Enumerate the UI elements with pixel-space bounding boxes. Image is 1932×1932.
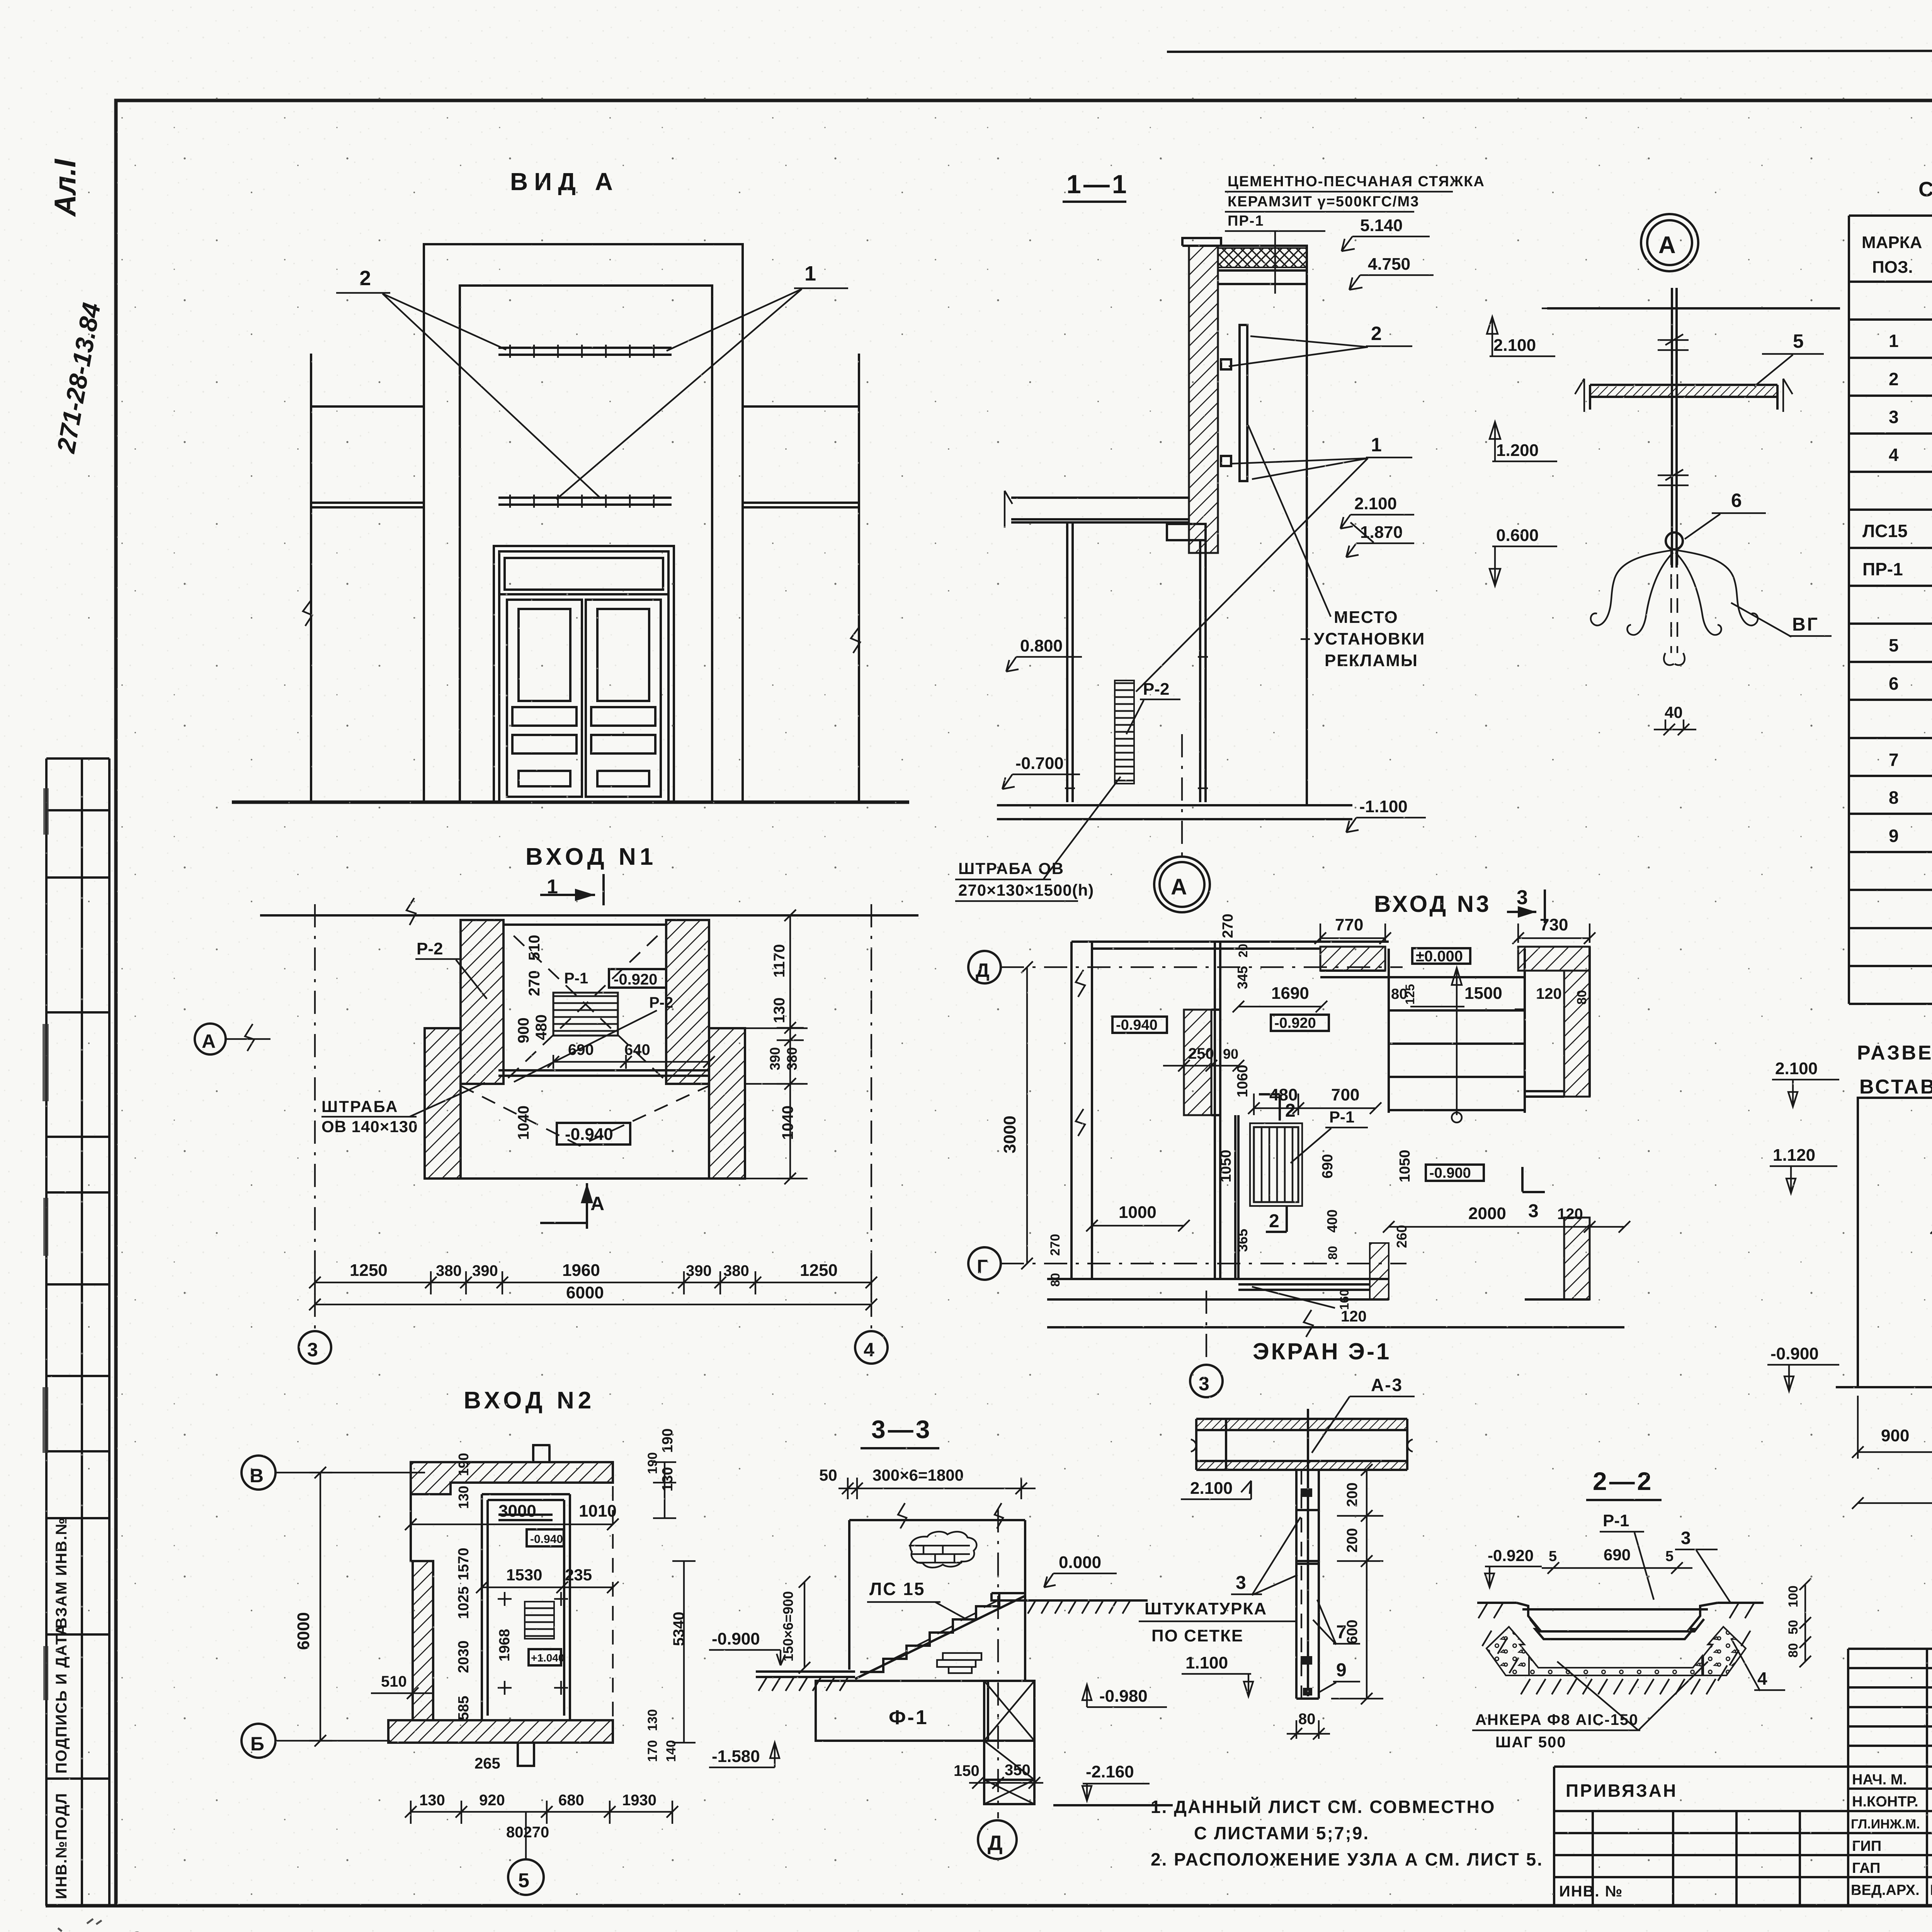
node circle A xyxy=(1154,857,1210,912)
level box -0.940 xyxy=(1112,1017,1167,1033)
left door post xyxy=(1067,522,1073,802)
section flag 2 top xyxy=(1259,1094,1280,1121)
revision table lines xyxy=(1848,1649,1932,1905)
screen mounting bar xyxy=(1240,325,1247,481)
tray ground surface xyxy=(1477,1602,1764,1604)
right kick panel xyxy=(597,771,649,786)
left flank wall outer edge xyxy=(310,354,312,802)
top centre hatched pier xyxy=(1320,947,1385,971)
axis G dash line xyxy=(1001,1263,1406,1264)
stair steps xyxy=(860,1593,1022,1672)
crossed block column xyxy=(984,1681,1034,1804)
door frame outer xyxy=(494,546,674,802)
soil hatch under tray xyxy=(1478,1603,1754,1694)
vestibule inner walls xyxy=(482,1494,570,1720)
floor line right xyxy=(1025,1599,1148,1602)
break marks on lintel xyxy=(898,1503,1003,1529)
wall right vertical xyxy=(1024,1520,1026,1681)
left column scan smudges xyxy=(43,788,49,1700)
bottom wall hatched (axis B) xyxy=(388,1720,613,1743)
section flag 2 bottom xyxy=(1266,1206,1287,1232)
bottom wall axis G xyxy=(1047,1279,1389,1299)
transom window xyxy=(505,558,663,590)
right lower hatched wall xyxy=(1564,1218,1590,1299)
radiator R-1 xyxy=(1254,1127,1298,1202)
niche door threshold xyxy=(498,1070,709,1076)
ceiling slab band xyxy=(1196,1461,1407,1470)
ground stub line xyxy=(1053,1804,1173,1806)
post joint lines xyxy=(1296,1510,1319,1564)
portal outer wall xyxy=(424,244,743,802)
grid bubble D xyxy=(968,951,1001,983)
left flank wall top edge xyxy=(311,405,424,408)
left leaf glazing panel xyxy=(519,609,570,701)
right outer vertical xyxy=(1588,947,1591,1097)
section mark 1 below title xyxy=(540,874,604,905)
left facade steps outline xyxy=(388,1483,433,1743)
canopy left break xyxy=(1005,491,1012,528)
level box -0.900 xyxy=(1426,1165,1484,1181)
axis 3 dash line xyxy=(1206,1291,1207,1363)
transom sill line xyxy=(499,593,668,595)
level box top xyxy=(527,1529,564,1546)
overall 6000 dim xyxy=(309,1283,877,1310)
ceiling screed band xyxy=(1196,1419,1407,1430)
facade wall line xyxy=(260,914,918,917)
break mark left wall xyxy=(1076,970,1085,1136)
slab end verticals xyxy=(1196,1419,1407,1470)
radiator R-1 grille xyxy=(553,993,618,1036)
title block outer frame xyxy=(1848,1649,1932,1905)
lower grille strip item2 xyxy=(498,495,672,508)
left door leaf xyxy=(507,600,582,797)
section flag 3 right xyxy=(1522,1167,1545,1192)
break on lower line xyxy=(1304,1310,1313,1337)
door frame inner xyxy=(499,551,668,802)
stamp column verticals xyxy=(46,759,109,1906)
canopy support block xyxy=(1167,524,1206,540)
right leaf glazing panel xyxy=(597,609,649,701)
right door post xyxy=(1200,540,1206,802)
level box -0.920 xyxy=(1271,1015,1329,1031)
break mark right wall xyxy=(851,627,860,653)
left wall verticals xyxy=(1071,942,1092,1279)
floor soil hatch xyxy=(1028,1600,1130,1614)
grid bubble V xyxy=(241,1456,276,1490)
wall left vertical xyxy=(848,1520,850,1670)
post outline xyxy=(1296,1470,1319,1699)
small brick stack xyxy=(937,1653,981,1673)
post inner dashed xyxy=(1301,1470,1302,1699)
hook center post dashed xyxy=(1671,550,1677,653)
bottom dim chain xyxy=(309,1261,877,1294)
grid bubble 3 xyxy=(299,1331,331,1364)
right push plates xyxy=(591,707,655,726)
axis A line xyxy=(226,1038,270,1040)
stair direction line xyxy=(1452,968,1462,1115)
axis B line xyxy=(276,1740,390,1742)
staircase stringers xyxy=(1389,949,1525,1113)
step block ticks xyxy=(868,1600,999,1673)
slab end break curls xyxy=(1191,1439,1413,1452)
dashed axis cut line right xyxy=(612,1462,614,1743)
main wall hatched xyxy=(1189,246,1218,553)
upper grille strip item1 xyxy=(498,345,672,358)
tray profile xyxy=(1517,1603,1718,1639)
spec table grid xyxy=(1849,216,1932,1004)
parapet cap xyxy=(1182,238,1221,246)
left porch wall hatched xyxy=(425,1028,461,1179)
vertical dim 3000 xyxy=(1021,961,1033,1269)
porch outline xyxy=(425,1028,745,1179)
grid bubble A left xyxy=(195,1024,226,1054)
level box -0.920 xyxy=(609,969,666,988)
top wall hatched (axis V) xyxy=(411,1462,613,1494)
vestibule inner reveal xyxy=(488,1500,564,1716)
tray inner lining xyxy=(1522,1609,1708,1631)
foundation F-1 xyxy=(816,1681,988,1741)
grid line 4 xyxy=(871,904,872,1329)
partition double line xyxy=(1215,942,1220,1279)
left push plates xyxy=(512,707,577,726)
corner plus marks xyxy=(498,1592,568,1695)
right porch wall hatched xyxy=(709,1028,745,1179)
axis 5 line xyxy=(525,1812,527,1859)
axis V line xyxy=(276,1472,425,1473)
radiator small hatch xyxy=(525,1602,554,1639)
porch dashed V xyxy=(461,1086,709,1146)
left ground line xyxy=(1836,1386,1932,1388)
door swing dashed X xyxy=(508,930,663,1078)
vertical dim line xyxy=(799,1576,810,1673)
grid bubble B xyxy=(241,1724,276,1758)
post foot marks xyxy=(1065,657,1208,788)
axis D dash line xyxy=(1001,966,1403,968)
grid bubble 5 xyxy=(508,1859,544,1895)
shelf hatch xyxy=(1590,386,1777,396)
left wall outline xyxy=(1858,1098,1932,1387)
staircase steps xyxy=(1389,977,1525,1110)
level box 0.000 xyxy=(1412,948,1470,964)
top facade wall line xyxy=(1071,940,1389,943)
left stamp column xyxy=(46,759,109,1906)
level box mid xyxy=(529,1649,561,1665)
break mark on facade line xyxy=(406,898,416,925)
top inner line xyxy=(1092,947,1320,950)
stair start circle xyxy=(1452,1112,1462,1122)
privyazan box xyxy=(1554,1767,1848,1905)
inner door opening top xyxy=(498,1515,553,1520)
shelf angle L50x5 xyxy=(1590,385,1777,410)
anchor rod xyxy=(1307,1409,1309,1696)
break mark left wall xyxy=(303,600,312,626)
section mark 3 xyxy=(1507,886,1545,923)
left wall hatched xyxy=(413,1561,433,1720)
porch lower line xyxy=(1047,1326,1624,1328)
node bubble A xyxy=(1641,214,1698,271)
right flank wall top edge xyxy=(743,405,859,408)
right flank wall outer edge xyxy=(858,354,860,802)
dash line to node A xyxy=(1181,734,1183,856)
bottom wall hatch patch xyxy=(1370,1243,1389,1299)
bottom dim chain xyxy=(405,1801,678,1824)
grid bubble D xyxy=(978,1820,1017,1859)
grid bubble G xyxy=(968,1247,1001,1280)
left ground line xyxy=(756,1672,855,1677)
ground line lower xyxy=(997,818,1352,820)
shelf end breaks xyxy=(1575,379,1793,412)
left kick panel xyxy=(519,771,570,786)
leader from notes to slab xyxy=(1274,231,1276,294)
mid-left hatched pier xyxy=(1184,1010,1211,1115)
stamp column box lines xyxy=(46,759,109,1779)
landing block xyxy=(992,1593,1025,1600)
canopy slab double lines xyxy=(1011,498,1189,522)
left flank wall band lines xyxy=(311,503,424,507)
wall right face line xyxy=(1306,246,1308,805)
bottom-left pen specks xyxy=(58,1919,140,1932)
grid bubble 3 xyxy=(1190,1365,1223,1397)
pier plaster line xyxy=(1211,1010,1221,1115)
top protrusion small xyxy=(533,1445,549,1462)
bracket squares xyxy=(1221,359,1231,369)
staff rows lines xyxy=(1848,1789,1932,1877)
porch bottom edge xyxy=(425,1177,745,1180)
sheet paper edge top xyxy=(1167,50,1932,52)
dim chain right xyxy=(1331,1464,1383,1704)
niche back wall line xyxy=(503,923,666,926)
threshold lines xyxy=(1238,1284,1370,1290)
stair slope line xyxy=(855,1596,1025,1679)
top slab outline xyxy=(1182,246,1307,284)
anchor plates xyxy=(1301,1488,1312,1497)
right dim chain line xyxy=(777,910,804,1184)
right dim vertical line xyxy=(653,1462,696,1743)
R-2 grille in section xyxy=(1115,680,1134,784)
grid bubble 4 xyxy=(855,1331,888,1364)
grid line 3 xyxy=(314,904,316,1329)
top dim line xyxy=(838,1478,1036,1499)
rod break marks xyxy=(1658,334,1689,485)
brick blob xyxy=(909,1532,976,1568)
level box -0.940 xyxy=(557,1123,630,1145)
break on axis A xyxy=(245,1024,254,1051)
right wall hatched xyxy=(1564,971,1590,1097)
left soil hatch xyxy=(759,1677,848,1691)
axis D dashed xyxy=(997,1509,999,1818)
right bay bottom lines xyxy=(1525,1091,1564,1097)
ground line section xyxy=(997,804,1352,806)
hook cluster xyxy=(1591,550,1673,635)
clamp circle xyxy=(1666,532,1683,549)
top right hatched pier xyxy=(1518,947,1590,971)
bottom protrusion small xyxy=(518,1743,534,1766)
pier underside lines xyxy=(1320,971,1389,977)
hook bottom curls xyxy=(1664,653,1685,665)
right flank wall band lines xyxy=(743,503,859,507)
lower partition lines xyxy=(1235,1115,1238,1279)
slab lines xyxy=(1218,270,1307,284)
right door leaf xyxy=(586,600,661,797)
right pier hatched xyxy=(666,920,709,1084)
ground line xyxy=(232,801,909,804)
left pier hatched xyxy=(461,920,503,1084)
hanger rod upper xyxy=(1672,288,1677,568)
frame bottom thick line xyxy=(46,1904,1932,1908)
portal inner reveal xyxy=(460,286,712,802)
lintel line xyxy=(849,1519,1025,1521)
ceiling line xyxy=(1547,307,1840,310)
inner dim line 690/640 xyxy=(548,1055,715,1069)
vertical dim 6000 xyxy=(309,1467,332,1747)
section arrow A bottom xyxy=(540,1183,604,1229)
insulation band crosshatch xyxy=(1218,248,1307,267)
extension lines right xyxy=(745,1028,808,1179)
tray concrete body xyxy=(1486,1627,1529,1675)
right lower bottom line xyxy=(1525,1298,1590,1301)
